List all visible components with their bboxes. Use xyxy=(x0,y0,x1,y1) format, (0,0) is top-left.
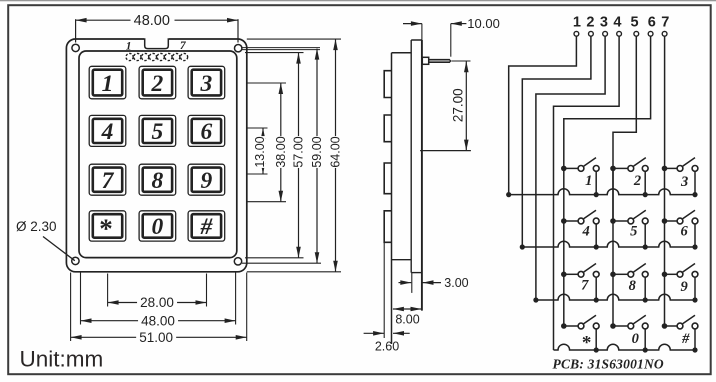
svg-text:8: 8 xyxy=(629,278,637,294)
svg-text:7: 7 xyxy=(102,168,115,194)
svg-text:PCB: 31S63001NO: PCB: 31S63001NO xyxy=(553,356,664,371)
svg-text:*: * xyxy=(582,333,592,354)
svg-text:6: 6 xyxy=(648,15,656,31)
svg-text:48.00: 48.00 xyxy=(134,13,170,29)
svg-text:3.00: 3.00 xyxy=(444,276,468,290)
svg-text:48.00: 48.00 xyxy=(141,313,175,328)
svg-text:#: # xyxy=(200,214,214,240)
svg-text:4: 4 xyxy=(101,119,114,145)
svg-text:9: 9 xyxy=(680,279,687,295)
svg-text:2: 2 xyxy=(151,71,164,97)
svg-text:6: 6 xyxy=(680,223,688,239)
svg-text:1: 1 xyxy=(102,71,114,97)
svg-text:9: 9 xyxy=(201,168,213,194)
svg-text:2: 2 xyxy=(633,173,641,189)
svg-text:5: 5 xyxy=(630,223,637,239)
svg-text:57.00: 57.00 xyxy=(292,136,306,167)
svg-text:3: 3 xyxy=(680,174,688,190)
svg-text:1: 1 xyxy=(126,41,132,53)
svg-text:3: 3 xyxy=(200,71,213,97)
svg-text:64.00: 64.00 xyxy=(329,136,343,167)
svg-text:1: 1 xyxy=(573,15,581,31)
svg-text:*: * xyxy=(99,213,113,243)
svg-text:51.00: 51.00 xyxy=(139,330,173,345)
svg-text:8.00: 8.00 xyxy=(395,313,419,327)
svg-text:1: 1 xyxy=(585,173,592,189)
svg-text:2.60: 2.60 xyxy=(375,340,399,354)
svg-text:5: 5 xyxy=(631,15,639,31)
svg-text:6: 6 xyxy=(201,119,213,145)
svg-text:27.00: 27.00 xyxy=(450,88,465,122)
svg-text:3: 3 xyxy=(600,15,608,31)
svg-text:7: 7 xyxy=(581,277,589,293)
svg-text:7: 7 xyxy=(661,15,669,31)
svg-text:#: # xyxy=(681,331,690,347)
svg-text:38.00: 38.00 xyxy=(274,136,288,167)
svg-text:5: 5 xyxy=(152,119,164,145)
svg-text:Ø 2.30: Ø 2.30 xyxy=(16,219,57,234)
svg-text:13.00: 13.00 xyxy=(253,136,267,167)
svg-text:4: 4 xyxy=(581,223,589,239)
svg-text:Unit:mm: Unit:mm xyxy=(20,346,104,371)
svg-text:59.00: 59.00 xyxy=(310,136,324,167)
svg-text:0: 0 xyxy=(632,331,639,347)
svg-text:8: 8 xyxy=(152,168,164,194)
svg-text:10.00: 10.00 xyxy=(467,16,500,31)
svg-text:28.00: 28.00 xyxy=(140,295,174,310)
svg-text:2: 2 xyxy=(586,15,594,31)
svg-text:0: 0 xyxy=(152,214,164,240)
svg-text:4: 4 xyxy=(613,15,621,31)
